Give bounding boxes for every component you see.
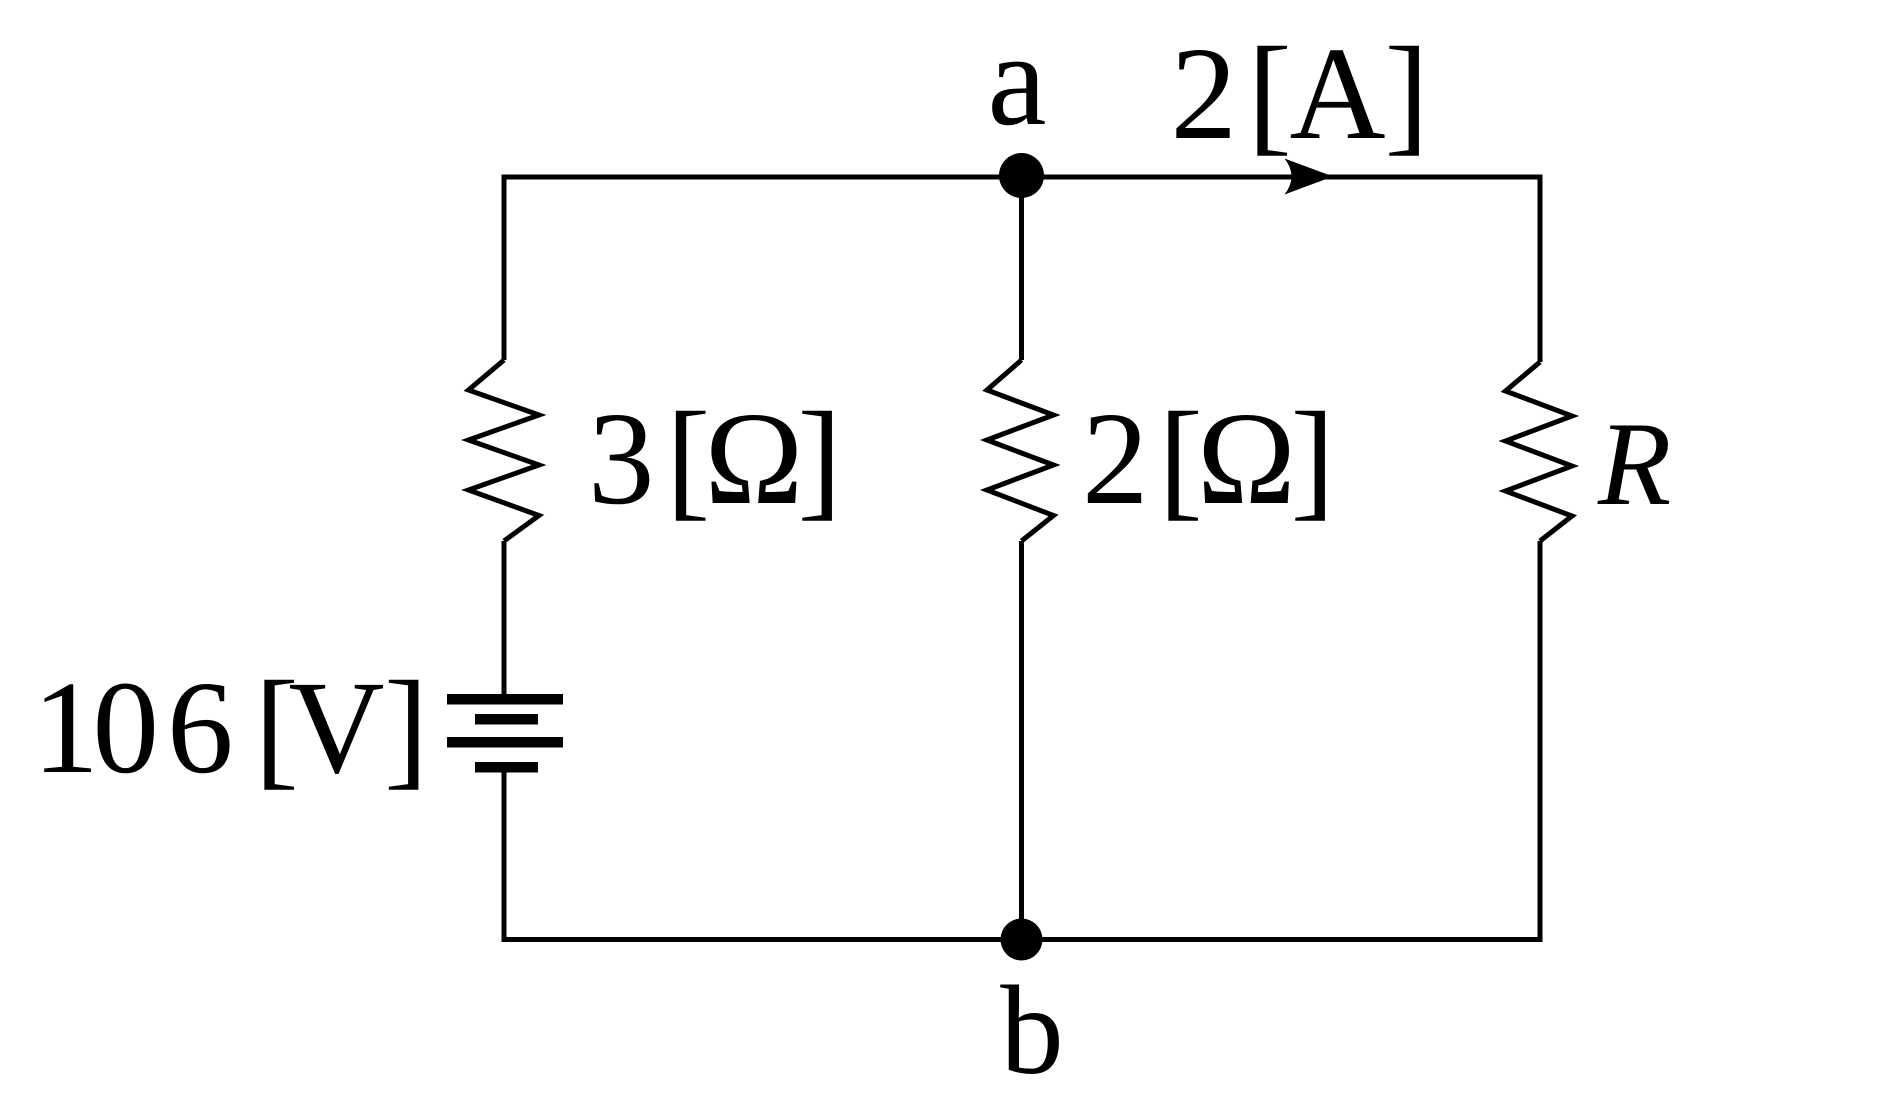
node b junction dot [1001,919,1043,961]
resistor 3[Ω] zigzag [469,360,540,541]
wire right branch lower segment [1538,541,1543,942]
svg-text:R: R [1597,397,1671,530]
wire bottom horizontal from left branch to right branch [502,937,1543,942]
wire middle branch lower segment to node b [1019,541,1024,940]
wire top horizontal from left branch to right branch [502,175,1541,180]
resistor 2[Ω] zigzag [987,360,1054,541]
resistor R zigzag [1506,362,1573,541]
svg-text:3[Ω]: 3[Ω] [588,384,842,532]
svg-text:2[Ω]: 2[Ω] [1082,384,1335,532]
wire middle branch upper segment from node a [1019,177,1024,360]
wire left branch lower segment below battery [502,772,507,942]
svg-text:106[V]: 106[V] [33,653,429,801]
wire left branch upper segment [502,175,507,361]
svg-text:b: b [1000,961,1064,1101]
svg-text:a: a [987,5,1046,153]
wire right branch upper segment [1538,175,1543,363]
svg-text:2[A]: 2[A] [1171,19,1429,167]
battery 106[V] plates [447,694,563,773]
wire left branch between resistor and battery [502,541,507,694]
current arrow 2[A] on top wire [1285,159,1334,195]
node a junction dot [999,153,1044,198]
